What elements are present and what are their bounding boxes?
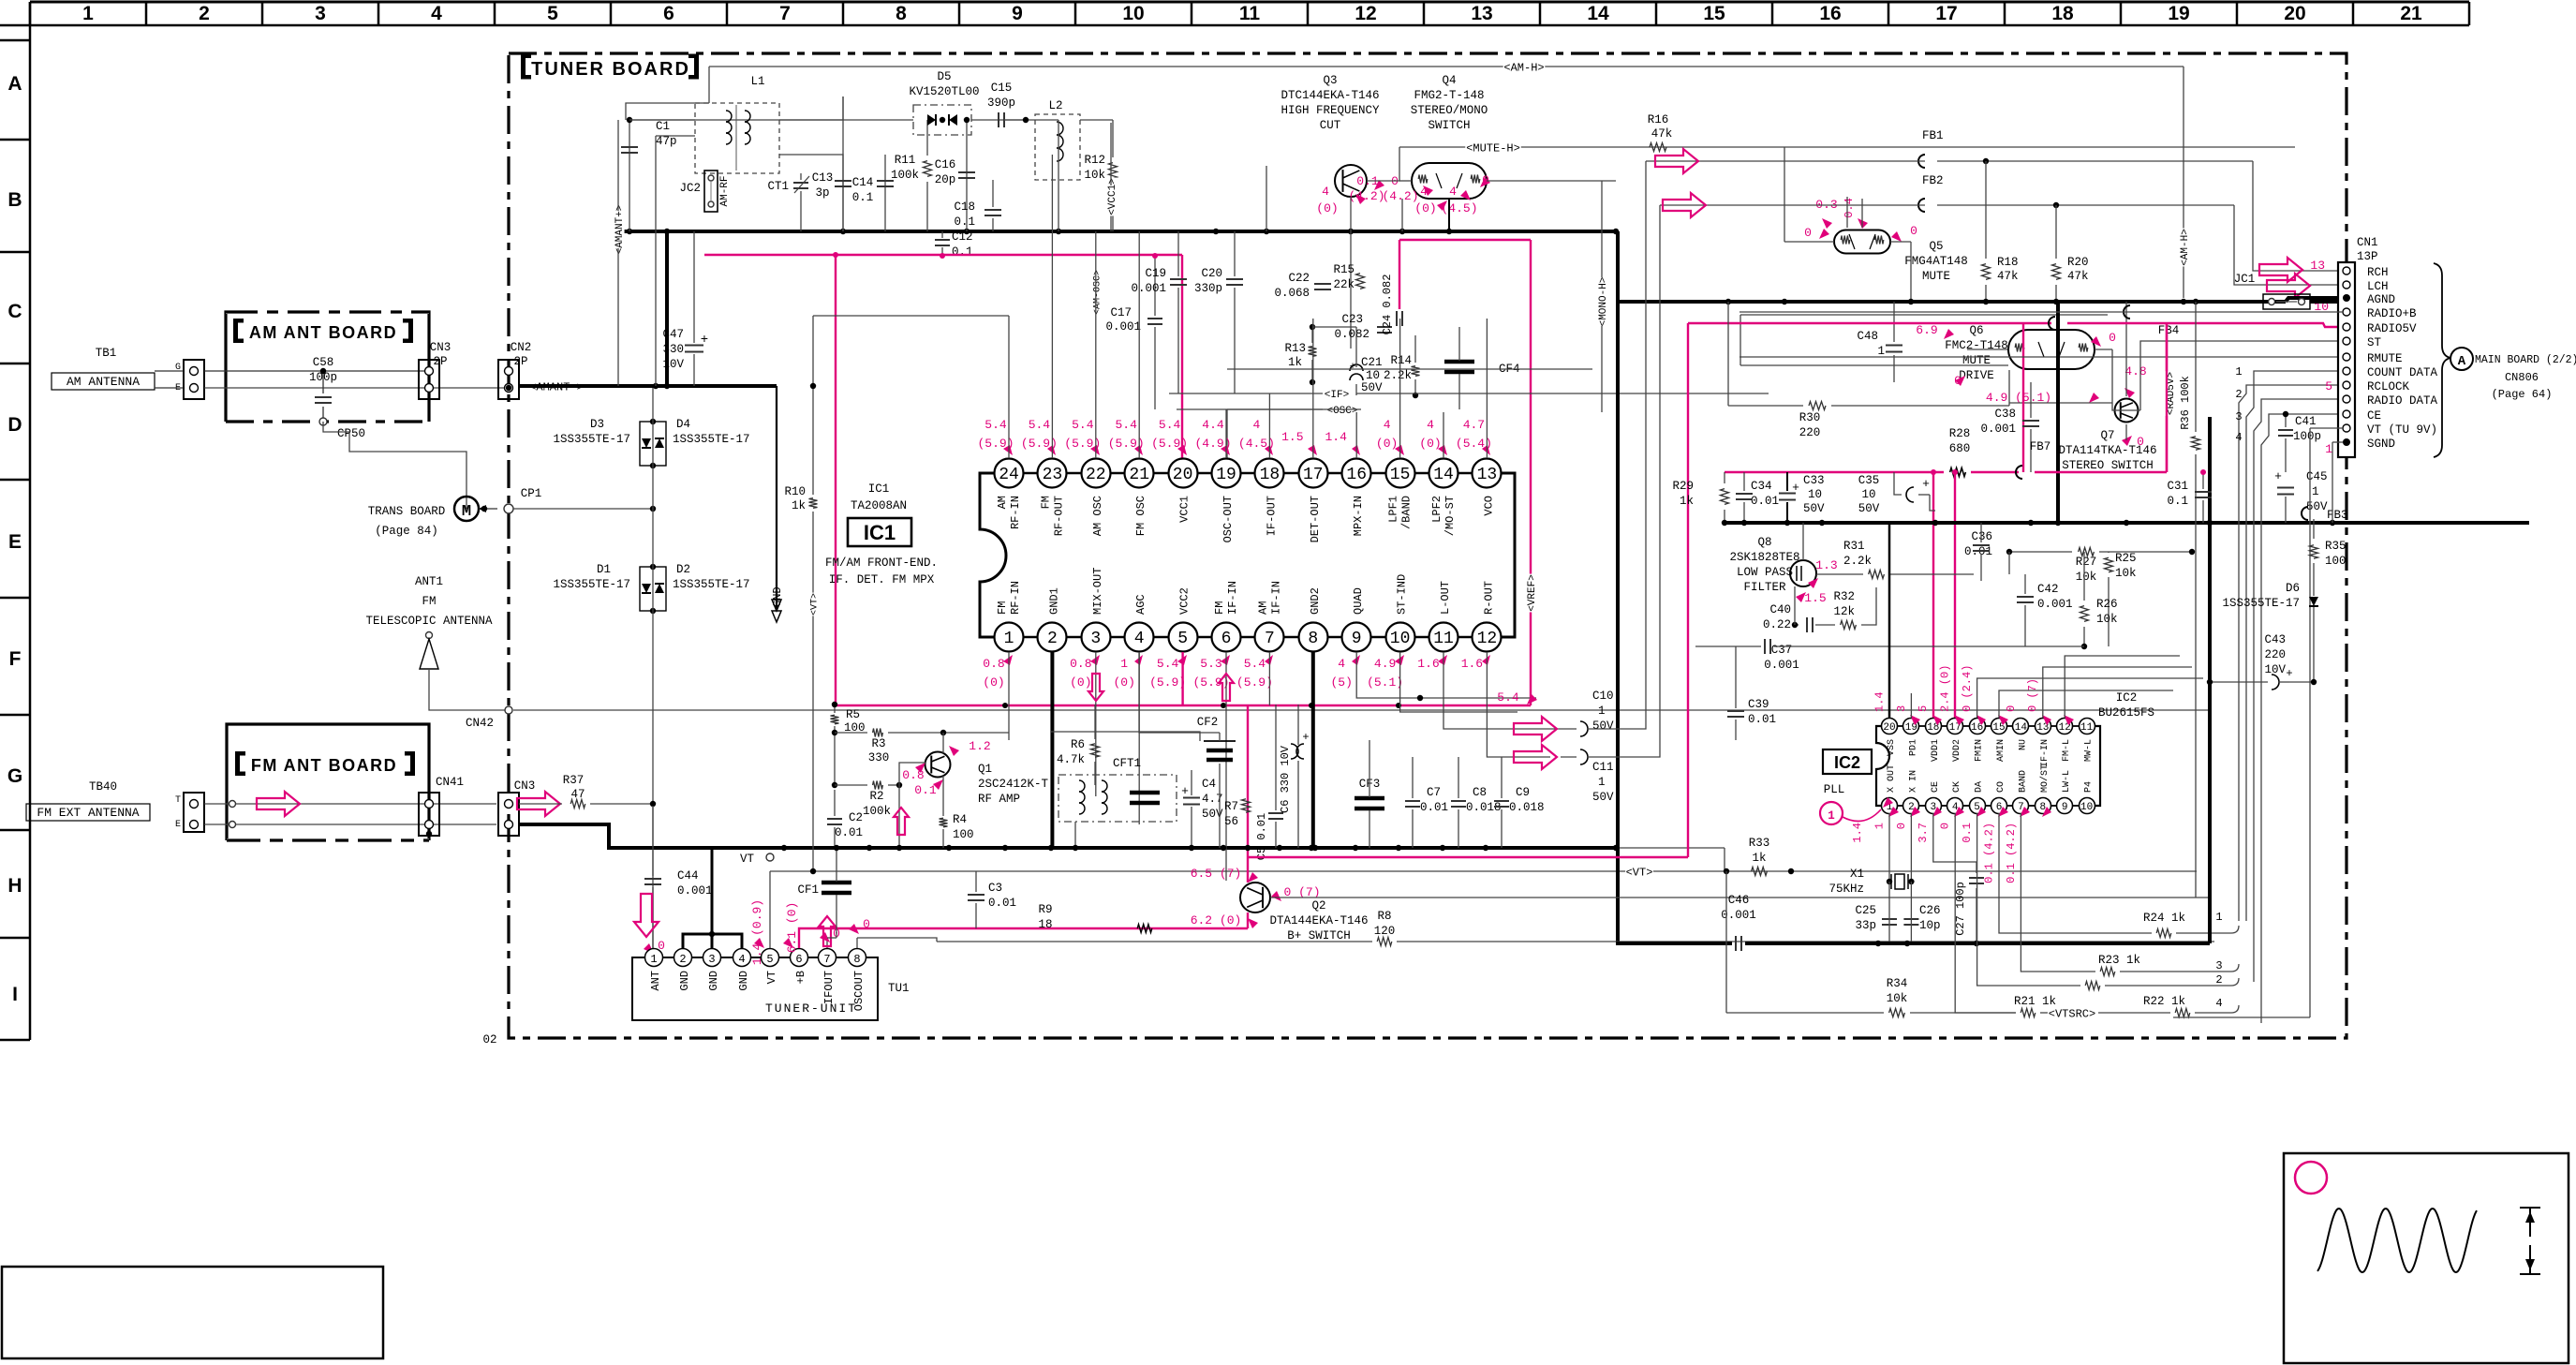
svg-text:<VT>: <VT>	[1626, 866, 1653, 879]
svg-text:0.1: 0.1	[914, 783, 937, 797]
svg-text:FM ANT BOARD: FM ANT BOARD	[251, 756, 397, 775]
svg-text:CE: CE	[2367, 409, 2381, 423]
svg-text:CF1: CF1	[797, 883, 819, 897]
svg-text:VCO: VCO	[1482, 496, 1495, 516]
svg-text:10k: 10k	[2076, 571, 2097, 584]
svg-text:AMIN: AMIN	[1996, 739, 2006, 762]
svg-text:C1: C1	[656, 120, 670, 133]
svg-text:Q4: Q4	[1442, 74, 1456, 87]
svg-text:AM-RF: AM-RF	[719, 175, 731, 206]
svg-text:4: 4	[1322, 185, 1329, 199]
svg-text:0.01: 0.01	[1748, 713, 1776, 726]
svg-text:6.2 (0): 6.2 (0)	[1191, 913, 1242, 927]
svg-text:C42: C42	[2037, 583, 2059, 596]
svg-text:0.001: 0.001	[677, 884, 713, 898]
svg-text:AM ANT BOARD: AM ANT BOARD	[249, 323, 397, 342]
svg-text:FM: FM	[422, 595, 436, 608]
svg-text:RF-IN: RF-IN	[1009, 496, 1022, 529]
svg-text:MAIN BOARD (2/2): MAIN BOARD (2/2)	[2475, 354, 2576, 366]
svg-text:(5): (5)	[1330, 675, 1352, 690]
svg-text:20p: 20p	[935, 173, 956, 186]
svg-text:C27 100p: C27 100p	[1954, 882, 1967, 936]
svg-text:+: +	[1922, 477, 1930, 491]
svg-text:6: 6	[663, 3, 674, 24]
svg-text:L2: L2	[1048, 99, 1062, 112]
svg-text:R34: R34	[1887, 977, 1908, 990]
svg-text:17: 17	[1303, 466, 1324, 484]
svg-text:C47: C47	[662, 328, 684, 341]
svg-text:OSC-OUT: OSC-OUT	[1221, 496, 1235, 542]
svg-text:C10: C10	[1592, 690, 1614, 703]
svg-text:DTC144EKA-T146: DTC144EKA-T146	[1281, 89, 1379, 102]
svg-text:RF-OUT: RF-OUT	[1052, 496, 1065, 536]
svg-text:BU2615FS: BU2615FS	[2098, 706, 2154, 720]
svg-text:3p: 3p	[815, 186, 829, 200]
svg-text:1: 1	[2325, 442, 2332, 456]
svg-text:1k: 1k	[1752, 852, 1766, 865]
svg-text:3: 3	[2235, 410, 2242, 423]
svg-text:11: 11	[1433, 630, 1454, 648]
svg-text:TU1: TU1	[888, 982, 910, 995]
svg-text:SWITCH: SWITCH	[1428, 119, 1470, 132]
svg-text:9: 9	[1352, 630, 1362, 648]
svg-text:C4: C4	[1202, 778, 1216, 791]
svg-text:VCC1: VCC1	[1178, 496, 1192, 523]
svg-text:VT (TU 9V): VT (TU 9V)	[2367, 423, 2437, 437]
svg-text:120: 120	[1374, 925, 1396, 938]
svg-text:R35: R35	[2325, 540, 2347, 553]
svg-text:(5.9): (5.9)	[1236, 675, 1273, 690]
svg-text:R28: R28	[1949, 427, 1971, 440]
svg-text:75KHz: 75KHz	[1828, 883, 1864, 896]
svg-text:CE: CE	[1931, 781, 1941, 793]
svg-text:10: 10	[2080, 802, 2093, 813]
svg-text:VDD1: VDD1	[1931, 739, 1941, 762]
svg-text:<OSC>: <OSC>	[1326, 406, 1357, 417]
svg-text:C35: C35	[1858, 474, 1880, 487]
svg-text:100k: 100k	[863, 805, 891, 818]
svg-text:(5.1): (5.1)	[1367, 675, 1403, 690]
svg-text:Q1: Q1	[978, 763, 992, 776]
svg-text:50V: 50V	[1858, 502, 1880, 515]
svg-text:2P: 2P	[513, 355, 527, 368]
svg-text:5: 5	[1177, 630, 1188, 648]
svg-text:H: H	[7, 875, 22, 897]
svg-text:D4: D4	[676, 418, 690, 431]
svg-text:220: 220	[2264, 648, 2286, 661]
svg-text:AM ANTENNA: AM ANTENNA	[67, 375, 140, 389]
svg-text:R5: R5	[846, 708, 860, 721]
svg-text:F: F	[9, 648, 22, 670]
svg-text:LPF2: LPF2	[1430, 496, 1443, 523]
svg-text:+: +	[2286, 667, 2292, 680]
svg-text:2.4 (0): 2.4 (0)	[1939, 665, 1952, 712]
svg-text:C14: C14	[852, 176, 874, 189]
svg-text:MW-L: MW-L	[2084, 739, 2095, 762]
svg-text:R16: R16	[1648, 113, 1669, 126]
svg-text:Q2: Q2	[1311, 899, 1325, 912]
svg-text:<VT>: <VT>	[810, 593, 821, 616]
svg-text:R26: R26	[2096, 598, 2118, 611]
svg-text:0.1 (4.2): 0.1 (4.2)	[2005, 823, 2018, 883]
svg-text:1SS355TE-17: 1SS355TE-17	[673, 578, 750, 591]
svg-text:1: 1	[650, 953, 657, 966]
svg-text:AM: AM	[996, 496, 1009, 509]
svg-text:R25: R25	[2115, 552, 2137, 565]
svg-text:2: 2	[199, 3, 210, 24]
svg-text:R14: R14	[1390, 354, 1412, 367]
svg-text:C39: C39	[1748, 698, 1769, 711]
svg-text:GND2: GND2	[1309, 587, 1322, 615]
svg-text:/BAND: /BAND	[1400, 496, 1414, 529]
svg-text:0.001: 0.001	[1764, 659, 1799, 672]
svg-text:0.1: 0.1	[852, 191, 874, 204]
svg-text:STEREO/MONO: STEREO/MONO	[1411, 104, 1488, 117]
svg-text:P4: P4	[2084, 781, 2095, 793]
svg-text:IC2: IC2	[2116, 691, 2138, 705]
svg-text:1.4: 1.4	[1325, 430, 1347, 444]
svg-text:TA2008AN: TA2008AN	[851, 499, 907, 512]
svg-text:X OUT: X OUT	[1887, 764, 1897, 793]
svg-text:5.4: 5.4	[1029, 418, 1051, 432]
svg-text:C20: C20	[1201, 267, 1222, 280]
svg-text:AGND: AGND	[2367, 293, 2395, 306]
svg-text:100p: 100p	[2293, 430, 2321, 443]
svg-text:C31: C31	[2167, 480, 2188, 493]
svg-text:RCH: RCH	[2367, 266, 2389, 279]
svg-text:2P: 2P	[433, 355, 447, 368]
svg-text:+: +	[701, 333, 708, 348]
svg-text:ANT1: ANT1	[415, 575, 443, 588]
svg-text:(0): (0)	[1113, 675, 1134, 690]
svg-text:<AM-H>: <AM-H>	[1503, 61, 1544, 74]
svg-text:CN806: CN806	[2505, 371, 2539, 384]
svg-text:CN3: CN3	[430, 341, 452, 354]
svg-text:18: 18	[1038, 918, 1052, 931]
svg-text:6.5 (7): 6.5 (7)	[1191, 867, 1242, 881]
svg-text:L-OUT: L-OUT	[1439, 581, 1452, 615]
svg-text:RCLOCK: RCLOCK	[2367, 380, 2410, 393]
svg-text:2.2k: 2.2k	[1843, 555, 1872, 568]
svg-text:4: 4	[1384, 418, 1391, 432]
svg-text:1: 1	[2312, 485, 2319, 498]
svg-text:C13: C13	[812, 171, 834, 185]
svg-text:1: 1	[1873, 823, 1886, 829]
svg-text:100: 100	[2325, 555, 2347, 568]
svg-text:VT: VT	[740, 853, 755, 866]
svg-text:4: 4	[738, 953, 745, 966]
svg-text:FB3: FB3	[2327, 509, 2348, 522]
svg-text:1: 1	[1004, 630, 1014, 648]
svg-text:PLL: PLL	[1824, 783, 1845, 796]
svg-text:C34: C34	[1751, 480, 1772, 493]
svg-text:1: 1	[1828, 809, 1835, 823]
svg-text:(4.2): (4.2)	[1382, 189, 1418, 203]
svg-text:QUAD: QUAD	[1352, 587, 1365, 615]
svg-text:50V: 50V	[1361, 381, 1383, 394]
svg-text:13: 13	[1471, 3, 1492, 24]
svg-text:SGND: SGND	[2367, 438, 2395, 451]
svg-text:CN42: CN42	[466, 717, 494, 730]
svg-text:13P: 13P	[2357, 250, 2378, 263]
svg-text:(Page 84): (Page 84)	[375, 525, 438, 538]
svg-text:D5: D5	[937, 70, 951, 83]
svg-text:A: A	[7, 73, 22, 95]
svg-text:RADIO5V: RADIO5V	[2367, 322, 2417, 335]
svg-text:56: 56	[1224, 815, 1238, 828]
svg-text:IC2: IC2	[1834, 753, 1860, 772]
svg-text:100: 100	[953, 828, 974, 841]
svg-text:16: 16	[1819, 3, 1841, 24]
svg-text:20: 20	[1173, 466, 1193, 484]
svg-text:3: 3	[2215, 959, 2222, 972]
svg-text:A: A	[2458, 354, 2466, 369]
svg-text:14: 14	[1587, 3, 1609, 24]
svg-text:C48: C48	[1857, 330, 1878, 343]
svg-text:<IF>: <IF>	[1325, 390, 1349, 401]
svg-text:R15: R15	[1333, 263, 1355, 276]
svg-text:20: 20	[2284, 3, 2305, 24]
svg-text:7: 7	[823, 953, 830, 966]
svg-text:0.1: 0.1	[1961, 823, 1974, 843]
svg-text:DET-OUT: DET-OUT	[1309, 496, 1322, 542]
svg-text:1SS355TE-17: 1SS355TE-17	[2222, 597, 2300, 610]
svg-text:9: 9	[2062, 802, 2068, 813]
svg-text:0.082: 0.082	[1334, 328, 1369, 341]
svg-text:RADIO DATA: RADIO DATA	[2367, 394, 2438, 408]
svg-text:4: 4	[1427, 418, 1434, 432]
svg-text:10p: 10p	[1919, 919, 1941, 932]
svg-text:(0): (0)	[1316, 201, 1338, 215]
svg-text:8: 8	[1308, 630, 1318, 648]
svg-text:4: 4	[431, 3, 442, 24]
svg-text:7: 7	[779, 3, 791, 24]
svg-text:X1: X1	[1850, 868, 1864, 881]
svg-text:MPX-IN: MPX-IN	[1352, 496, 1365, 536]
svg-text:C9: C9	[1516, 786, 1530, 799]
svg-text:FILTER: FILTER	[1743, 581, 1786, 594]
svg-text:(Page 64): (Page 64)	[2492, 388, 2553, 401]
svg-text:4: 4	[1252, 418, 1260, 432]
svg-text:C8: C8	[1473, 786, 1487, 799]
svg-text:IF-IN: IF-IN	[1269, 581, 1282, 615]
svg-text:<VTSRC>: <VTSRC>	[2049, 1007, 2095, 1020]
svg-text:6: 6	[795, 953, 802, 966]
svg-text:1k: 1k	[1680, 495, 1694, 508]
svg-text:5.4: 5.4	[1115, 418, 1137, 432]
svg-text:10k: 10k	[1887, 992, 1908, 1005]
svg-text:50V: 50V	[1803, 502, 1825, 515]
svg-text:TRANS BOARD: TRANS BOARD	[368, 505, 446, 518]
svg-text:1SS355TE-17: 1SS355TE-17	[553, 433, 630, 446]
svg-text:R18: R18	[1997, 256, 2019, 269]
svg-text:/MO-ST: /MO-ST	[1443, 496, 1457, 536]
svg-text:C40: C40	[1769, 603, 1791, 616]
svg-text:C16: C16	[935, 158, 956, 171]
svg-text:E: E	[175, 820, 181, 830]
svg-text:0.1: 0.1	[2167, 495, 2188, 508]
svg-text:RMUTE: RMUTE	[2367, 352, 2403, 365]
svg-text:C26: C26	[1919, 904, 1941, 917]
svg-text:0.1 (4.2): 0.1 (4.2)	[1982, 823, 1995, 883]
svg-text:0.001: 0.001	[2037, 598, 2073, 611]
svg-text:0: 0	[1910, 224, 1917, 238]
svg-text:1SS355TE-17: 1SS355TE-17	[673, 433, 750, 446]
svg-text:R29: R29	[1672, 480, 1694, 493]
svg-text:D1: D1	[597, 563, 611, 576]
svg-text:10: 10	[1808, 488, 1822, 501]
svg-text:R20: R20	[2067, 256, 2089, 269]
svg-text:100k: 100k	[891, 169, 919, 182]
svg-text:<MONO-H>: <MONO-H>	[1598, 277, 1609, 327]
svg-text:FM: FM	[996, 601, 1009, 615]
svg-text:5.4: 5.4	[1072, 418, 1094, 432]
svg-text:(0): (0)	[1070, 675, 1091, 690]
svg-text:0.8: 0.8	[1070, 657, 1091, 671]
svg-text:15: 15	[1390, 466, 1411, 484]
svg-text:21: 21	[1129, 466, 1149, 484]
svg-text:50V: 50V	[1592, 791, 1614, 804]
svg-text:RF-IN: RF-IN	[1009, 581, 1022, 615]
svg-text:GND1: GND1	[1047, 587, 1060, 615]
svg-text:C19: C19	[1145, 267, 1166, 280]
svg-text:(4.2): (4.2)	[1348, 189, 1384, 203]
svg-text:R30: R30	[1799, 411, 1821, 424]
svg-text:21: 21	[2400, 3, 2422, 24]
svg-text:FB2: FB2	[1922, 174, 1944, 187]
svg-text:1: 1	[2215, 911, 2222, 924]
svg-text:0 (2.4): 0 (2.4)	[1961, 665, 1974, 712]
svg-text:10: 10	[1861, 488, 1875, 501]
svg-text:14: 14	[1433, 466, 1454, 484]
svg-text:(4.5): (4.5)	[1441, 201, 1477, 215]
svg-text:1k: 1k	[1288, 356, 1302, 369]
svg-text:4.4: 4.4	[1202, 418, 1224, 432]
svg-text:(0): (0)	[1419, 437, 1441, 451]
svg-text:GND: GND	[737, 971, 750, 991]
svg-text:0.1: 0.1	[954, 215, 975, 229]
svg-text:10: 10	[1122, 3, 1144, 24]
svg-text:50V: 50V	[1592, 720, 1614, 733]
svg-text:4.8: 4.8	[2124, 364, 2146, 378]
svg-text:1.4 (0.9): 1.4 (0.9)	[750, 899, 764, 965]
svg-text:14: 14	[2015, 722, 2028, 734]
svg-text:4: 4	[1449, 185, 1457, 199]
svg-text:5: 5	[2325, 379, 2332, 393]
svg-text:22k: 22k	[1333, 278, 1355, 291]
svg-text:0.22: 0.22	[1763, 618, 1791, 631]
svg-text:VDD2: VDD2	[1952, 739, 1962, 762]
svg-text:5: 5	[547, 3, 558, 24]
svg-text:CK: CK	[1952, 781, 1962, 793]
svg-text:20: 20	[1883, 722, 1895, 734]
svg-text:CN2: CN2	[511, 341, 532, 354]
svg-text:47k: 47k	[1997, 270, 2019, 283]
svg-text:KV1520TL00: KV1520TL00	[909, 85, 979, 98]
svg-text:C3: C3	[988, 882, 1002, 895]
svg-text:CT1: CT1	[767, 180, 789, 193]
svg-text:4: 4	[1338, 657, 1345, 671]
svg-text:D: D	[7, 414, 22, 436]
svg-text:IF-IN: IF-IN	[1226, 581, 1239, 615]
svg-text:TB40: TB40	[89, 780, 117, 794]
svg-text:6: 6	[1221, 630, 1232, 648]
svg-text:IFOUT: IFOUT	[822, 971, 836, 1004]
svg-text:FMIN: FMIN	[1975, 739, 1985, 762]
svg-text:C18: C18	[954, 200, 975, 214]
svg-text:M: M	[462, 503, 471, 521]
svg-text:C5 0.01: C5 0.01	[1255, 813, 1268, 860]
svg-text:CFT1: CFT1	[1113, 757, 1141, 770]
svg-text:10V: 10V	[2264, 663, 2286, 676]
svg-text:COUNT DATA: COUNT DATA	[2367, 366, 2438, 379]
svg-text:R27: R27	[2076, 556, 2097, 569]
svg-text:10: 10	[1366, 369, 1380, 382]
svg-text:0.001: 0.001	[1980, 423, 2016, 436]
svg-text:R4: R4	[953, 813, 967, 826]
svg-text:5: 5	[766, 953, 773, 966]
svg-text:GND: GND	[707, 971, 720, 991]
svg-text:02: 02	[482, 1033, 496, 1046]
svg-text:D3: D3	[590, 418, 604, 431]
svg-text:FM OSC: FM OSC	[1134, 496, 1147, 536]
svg-text:4: 4	[2235, 431, 2242, 444]
svg-text:(0): (0)	[1414, 201, 1436, 215]
svg-text:R33: R33	[1749, 837, 1770, 850]
svg-text:0.01: 0.01	[988, 897, 1016, 910]
svg-text:47k: 47k	[2067, 270, 2089, 283]
svg-text:7: 7	[1265, 630, 1275, 648]
svg-text:5.4: 5.4	[1497, 690, 1519, 705]
svg-text:1.6: 1.6	[1461, 657, 1483, 671]
svg-text:LPF1: LPF1	[1387, 496, 1400, 523]
svg-text:FMG4AT148: FMG4AT148	[1904, 255, 1968, 268]
svg-text:18: 18	[2051, 3, 2074, 24]
svg-text:TUNER BOARD: TUNER BOARD	[531, 59, 690, 80]
svg-text:0: 0	[1804, 226, 1812, 240]
svg-text:R11: R11	[895, 154, 916, 167]
svg-text:AM: AM	[1256, 601, 1269, 615]
svg-text:LOW PASS: LOW PASS	[1737, 566, 1793, 579]
svg-text:2.2k: 2.2k	[1384, 369, 1412, 382]
svg-text:IF-OUT: IF-OUT	[1265, 496, 1278, 536]
svg-text:9: 9	[1012, 3, 1023, 24]
svg-text:FM/AM FRONT-END.: FM/AM FRONT-END.	[825, 556, 938, 570]
svg-text:C33: C33	[1803, 474, 1825, 487]
svg-text:R22 1k: R22 1k	[2143, 995, 2185, 1008]
svg-text:JC1: JC1	[2234, 273, 2256, 286]
svg-text:2: 2	[2215, 973, 2222, 987]
svg-text:<AM-H>: <AM-H>	[2180, 229, 2191, 266]
svg-text:TB1: TB1	[96, 347, 117, 360]
svg-text:15: 15	[1703, 3, 1725, 24]
svg-text:(5.9): (5.9)	[1149, 675, 1186, 690]
svg-text:FM EXT ANTENNA: FM EXT ANTENNA	[37, 806, 139, 820]
svg-text:C36: C36	[1971, 530, 1992, 543]
svg-text:330: 330	[868, 751, 890, 764]
svg-text:<VCC1>: <VCC1>	[1107, 178, 1118, 215]
svg-text:+: +	[1181, 784, 1189, 798]
svg-text:MO/ST: MO/ST	[2039, 764, 2050, 793]
svg-text:AGC: AGC	[1134, 594, 1147, 615]
svg-text:C21: C21	[1361, 356, 1383, 369]
svg-text:1.5: 1.5	[1804, 591, 1826, 605]
svg-text:FB1: FB1	[1922, 129, 1944, 142]
svg-text:AM OSC: AM OSC	[1091, 496, 1104, 536]
svg-text:VCC2: VCC2	[1178, 587, 1192, 615]
svg-text:6.9: 6.9	[1916, 323, 1937, 337]
svg-text:ST-IND: ST-IND	[1396, 574, 1409, 615]
